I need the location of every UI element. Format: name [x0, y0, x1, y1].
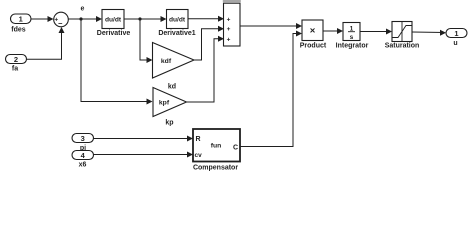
svg-text:Derivative1: Derivative1 — [158, 30, 195, 37]
gain kpf (name kp) — [153, 88, 187, 127]
svg-text:u: u — [453, 40, 457, 47]
sum block (rectangular, 3 plus inputs) — [224, 3, 241, 46]
junction after Derivative — [138, 17, 141, 20]
sum junction S1 — [54, 12, 69, 28]
svg-text:C: C — [233, 145, 238, 152]
output port 1 (u) — [446, 29, 467, 48]
block Product — [300, 20, 327, 50]
wire Derivative1 to Sum input 1 — [188, 16, 224, 22]
svg-text:fun: fun — [211, 143, 222, 150]
wire Product to Integrator — [323, 28, 343, 34]
svg-text:1: 1 — [19, 15, 23, 24]
svg-text:Saturation: Saturation — [385, 43, 420, 50]
wire junction down to kdf gain — [140, 19, 153, 63]
block Integrator (1/s) — [336, 23, 369, 50]
svg-text:1: 1 — [454, 29, 458, 38]
wire sum block to Product input 1 — [240, 23, 302, 29]
svg-text:Derivative: Derivative — [97, 30, 131, 37]
svg-text:+: + — [227, 16, 231, 23]
svg-text:cv: cv — [195, 152, 203, 159]
wire kpf to Sum input 3 — [187, 36, 225, 102]
wire Derivative to Derivative1 — [124, 16, 167, 22]
svg-text:+: + — [227, 36, 231, 43]
wire port4 to Compensator cv — [94, 152, 194, 158]
svg-text:kp: kp — [165, 120, 173, 127]
wire kdf to Sum input 2 — [194, 26, 224, 60]
gain kdf (name kd) — [153, 43, 195, 91]
svg-text:Compensator: Compensator — [193, 165, 238, 172]
svg-text:fdes: fdes — [11, 26, 26, 33]
svg-text:+: + — [227, 26, 231, 33]
svg-text:×: × — [310, 26, 316, 37]
svg-text:x6: x6 — [79, 161, 87, 168]
wire Integrator to Saturation — [360, 29, 392, 35]
svg-text:fa: fa — [12, 66, 18, 73]
svg-text:−: − — [58, 19, 63, 28]
input port 2 (fa) — [6, 55, 27, 73]
wire from port1 to sum S1 — [31, 16, 54, 22]
wire node e down to kpf gain — [81, 19, 153, 105]
svg-text:Integrator: Integrator — [336, 43, 369, 50]
wire sum S1 to Derivative, node e — [68, 16, 102, 22]
svg-text:kpf: kpf — [159, 100, 170, 107]
block Saturation — [385, 22, 420, 50]
svg-text:Product: Product — [300, 43, 327, 50]
wire port3 to Compensator R — [94, 136, 194, 142]
svg-text:kdf: kdf — [161, 58, 172, 65]
wire Compensator C up to Product input 2 — [240, 31, 302, 147]
input port 1 (fdes) — [11, 14, 32, 33]
cropped gray band above sum block — [223, 0, 241, 2]
block Derivative1 — [158, 10, 195, 38]
wire Saturation to output port — [412, 30, 446, 36]
svg-text:e: e — [81, 6, 85, 13]
svg-text:2: 2 — [14, 55, 18, 64]
wire from port2 up into sum S1 — [27, 27, 65, 59]
node e — [79, 6, 84, 21]
svg-text:3: 3 — [81, 134, 85, 143]
input port 4 (x6) — [72, 151, 94, 169]
svg-text:kd: kd — [168, 84, 176, 91]
input port 3 (pi) — [72, 134, 94, 153]
svg-text:s: s — [350, 34, 354, 41]
block Compensator (subsystem R, cv -> C, fun) — [193, 129, 240, 172]
block Derivative — [97, 10, 131, 38]
svg-text:du/dt: du/dt — [169, 17, 186, 24]
svg-text:du/dt: du/dt — [105, 17, 122, 24]
svg-text:R: R — [196, 136, 201, 143]
